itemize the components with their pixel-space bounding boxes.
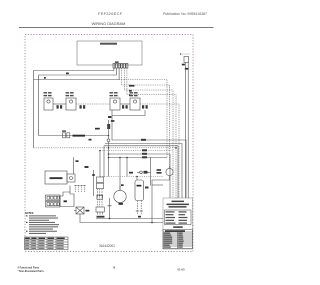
fuse F1 top right	[181, 53, 191, 55]
row wire + element symbols	[53, 104, 179, 198]
wire t6 right	[127, 68, 176, 198]
svg-text:FEF326ECF: FEF326ECF	[98, 11, 123, 16]
wire labels	[66, 73, 69, 75]
svg-text:NOTES:: NOTES:	[25, 212, 34, 215]
outer dashed border	[25, 35, 193, 252]
wire t5 right	[124, 68, 173, 198]
header rule	[19, 27, 214, 29]
wire labels on center wires	[141, 139, 146, 141]
diode / fuse on right	[95, 128, 100, 130]
motor circle	[114, 190, 126, 202]
TOD element	[129, 172, 133, 174]
receptacle wire	[39, 135, 109, 137]
clock connector terminals	[113, 64, 128, 69]
wire under switch boxes	[112, 110, 145, 116]
junction dots	[99, 147, 177, 158]
svg-text:* Non-Illustrated Parts: * Non-Illustrated Parts	[18, 270, 45, 273]
terminal board grid blocks	[46, 195, 61, 207]
oven light	[157, 169, 162, 171]
long dotted wire 2	[100, 176, 163, 178]
ground box with X	[76, 207, 84, 214]
svg-text:01-05: 01-05	[178, 268, 186, 272]
bottom rails	[96, 218, 186, 220]
svg-text:-9: -9	[113, 265, 116, 269]
surface switch boxes	[44, 98, 140, 110]
bake element tall box	[135, 180, 144, 201]
relay stack	[97, 177, 104, 183]
svg-text:316442001: 316442001	[99, 244, 115, 248]
wire t3 left	[34, 68, 120, 80]
wire with label left of relay	[93, 170, 95, 196]
wire t3 right branch	[119, 80, 167, 158]
power cord block	[96, 207, 104, 212]
right table	[163, 230, 193, 249]
lock motor	[45, 171, 67, 184]
right-side horizontal wires turning down	[112, 116, 186, 219]
svg-text:# Functional Parts: # Functional Parts	[18, 267, 40, 270]
long dotted wire	[34, 147, 177, 149]
clock/timer box	[77, 41, 142, 65]
svg-text:Publication No: 5995416387: Publication No: 5995416387	[163, 12, 207, 16]
wire t2 left	[39, 68, 117, 136]
center horizontals	[100, 150, 173, 152]
terminal block TB	[60, 192, 74, 207]
wire t1 left	[34, 68, 114, 148]
right info panel	[163, 198, 193, 249]
svg-text:WIRING DIAGRAM: WIRING DIAGRAM	[92, 21, 126, 26]
probe wire	[109, 198, 111, 219]
surface switch row labels	[44, 92, 138, 96]
left table	[25, 237, 69, 250]
wire t4 right	[122, 68, 170, 166]
fuse wires down	[185, 63, 187, 219]
